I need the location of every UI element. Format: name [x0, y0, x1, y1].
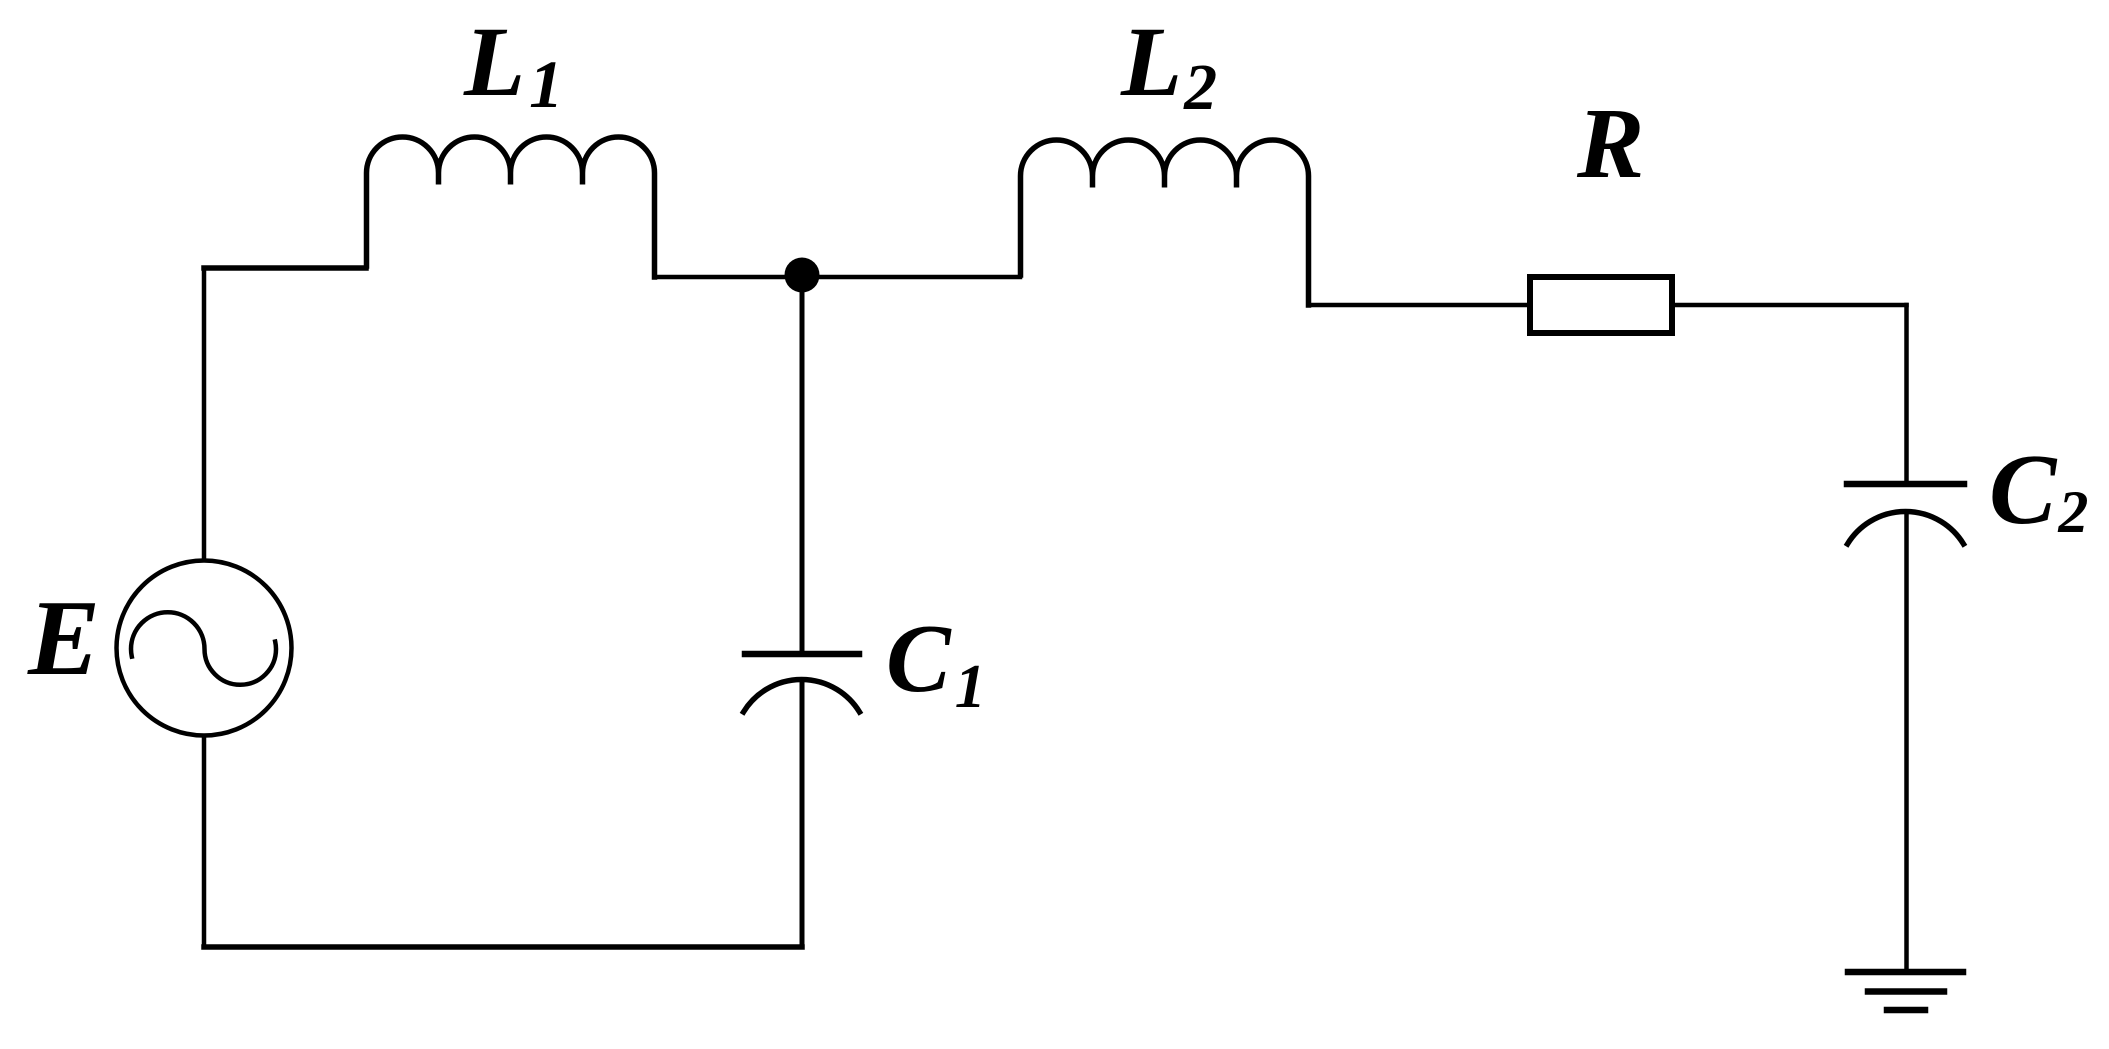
wire W12: C1 to bottom rail [800, 682, 805, 945]
svg-text:R: R [1576, 87, 1644, 199]
node A: junction dot [785, 258, 820, 293]
svg-text:L2: L2 [1120, 6, 1217, 124]
wire W8: C2 to ground [1904, 513, 1909, 969]
svg-text:L1: L1 [463, 6, 563, 122]
inductor L1 [367, 137, 655, 277]
resistor R body [1530, 277, 1672, 333]
wire W7: right vertical down to C2 [1904, 305, 1909, 481]
capacitor C1 top plate [745, 651, 859, 658]
ground bar 2 [1868, 988, 1944, 995]
capacitor C1 bottom curved plate [744, 679, 860, 712]
wire W2: top-left horizontal to L1 [204, 265, 366, 271]
svg-text:C2: C2 [1989, 433, 2088, 545]
ground bar 3 [1887, 1007, 1925, 1014]
source E sine wave [131, 612, 276, 685]
inductor L2 [1021, 140, 1309, 305]
wire W5: L2 to resistor R [1309, 303, 1531, 308]
wire W3: L1 right terminal to node [655, 275, 803, 280]
svg-text:C1: C1 [886, 605, 986, 721]
wire W4: node to L2 [802, 275, 1020, 280]
ground bar 1 [1848, 969, 1963, 976]
source E circle [117, 561, 292, 736]
wire W10: bottom horizontal rail [204, 944, 802, 950]
capacitor C2 top plate [1847, 481, 1964, 488]
capacitor C2 bottom curved plate [1848, 511, 1964, 544]
wire W11: node down to C1 [800, 277, 805, 651]
wire W6: resistor R to right corner [1672, 303, 1907, 308]
wire W1: left vertical from top corner down to source top [202, 270, 207, 559]
wire W9: source bottom to bottom rail [202, 737, 207, 945]
svg-text:E: E [27, 579, 100, 698]
